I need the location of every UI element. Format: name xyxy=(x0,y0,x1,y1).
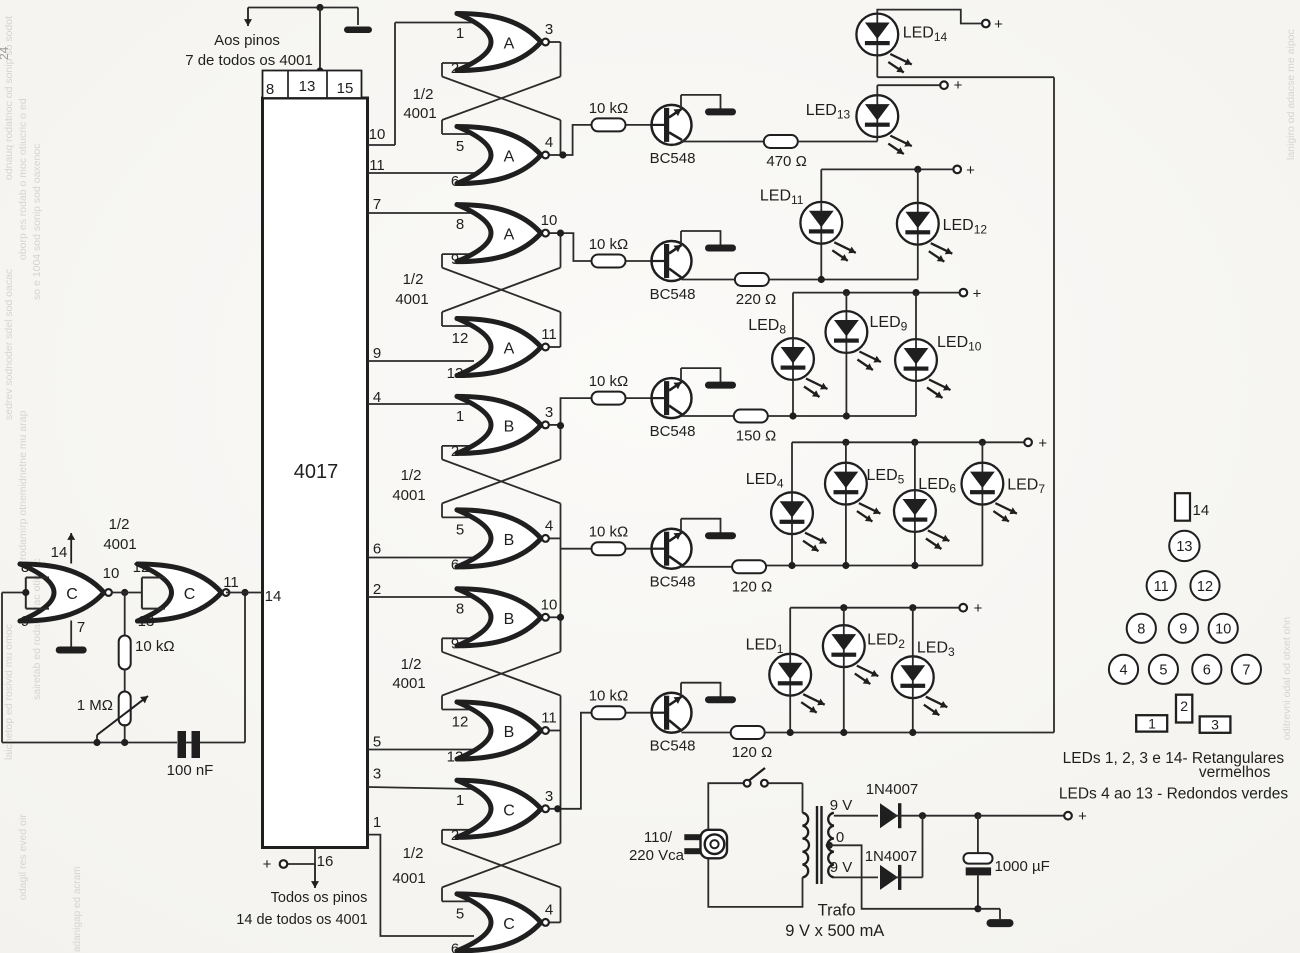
svg-text:4001: 4001 xyxy=(392,870,425,887)
svg-text:7: 7 xyxy=(373,196,381,213)
svg-text:14 de todos os 4001: 14 de todos os 4001 xyxy=(236,912,367,928)
svg-text:6: 6 xyxy=(451,940,459,953)
svg-text:100 nF: 100 nF xyxy=(167,762,214,779)
svg-text:4: 4 xyxy=(1119,663,1127,679)
svg-text:BC548: BC548 xyxy=(650,738,696,755)
svg-text:8: 8 xyxy=(1137,622,1145,638)
svg-text:+: + xyxy=(994,16,1003,33)
svg-text:5: 5 xyxy=(456,138,464,155)
svg-text:3: 3 xyxy=(1211,717,1219,733)
svg-text:B: B xyxy=(504,418,515,435)
svg-text:10 kΩ: 10 kΩ xyxy=(589,100,629,117)
svg-text:13: 13 xyxy=(138,613,155,630)
svg-text:8: 8 xyxy=(456,216,464,233)
svg-text:4017: 4017 xyxy=(294,461,339,483)
svg-text:13: 13 xyxy=(447,749,464,766)
svg-text:1: 1 xyxy=(373,814,381,831)
svg-text:120 Ω: 120 Ω xyxy=(732,744,772,761)
svg-text:8: 8 xyxy=(21,559,29,576)
svg-text:10 kΩ: 10 kΩ xyxy=(589,236,629,253)
svg-text:4001: 4001 xyxy=(395,291,428,308)
svg-text:4: 4 xyxy=(545,901,553,918)
svg-text:12: 12 xyxy=(133,559,150,576)
svg-text:9: 9 xyxy=(21,613,29,630)
svg-text:A: A xyxy=(504,227,515,244)
svg-text:0: 0 xyxy=(836,829,844,846)
svg-text:10 kΩ: 10 kΩ xyxy=(589,688,629,705)
svg-text:220 Ω: 220 Ω xyxy=(736,291,776,308)
svg-text:4: 4 xyxy=(373,389,381,406)
svg-text:4: 4 xyxy=(545,517,553,534)
svg-text:13: 13 xyxy=(447,365,464,382)
svg-text:1/2: 1/2 xyxy=(401,467,422,484)
svg-text:B: B xyxy=(504,724,515,741)
svg-text:3: 3 xyxy=(373,766,381,783)
svg-text:+: + xyxy=(263,856,272,873)
svg-text:10 kΩ: 10 kΩ xyxy=(589,373,629,390)
svg-text:C: C xyxy=(184,586,196,603)
svg-text:4: 4 xyxy=(545,134,553,151)
svg-text:11: 11 xyxy=(223,574,239,591)
svg-text:A: A xyxy=(504,341,515,358)
svg-text:14: 14 xyxy=(265,588,282,605)
svg-text:5: 5 xyxy=(456,521,464,538)
svg-text:sairetab ed rodagerrac otiucri: sairetab ed rodagerrac otiucric xyxy=(31,558,43,700)
svg-text:7 de todos os 4001: 7 de todos os 4001 xyxy=(185,52,313,69)
svg-text:110/: 110/ xyxy=(644,829,673,846)
svg-text:+: + xyxy=(974,600,983,617)
svg-text:10 kΩ: 10 kΩ xyxy=(135,638,175,655)
svg-text:11: 11 xyxy=(1154,579,1169,595)
svg-text:470 Ω: 470 Ω xyxy=(766,153,806,170)
svg-text:A: A xyxy=(504,36,515,53)
svg-text:LEDs 4 ao 13 - Redondos verdes: LEDs 4 ao 13 - Redondos verdes xyxy=(1059,786,1288,803)
svg-text:3: 3 xyxy=(545,788,553,805)
svg-text:6: 6 xyxy=(451,173,459,190)
svg-text:BC548: BC548 xyxy=(650,286,696,303)
svg-text:12: 12 xyxy=(452,714,469,731)
svg-text:9: 9 xyxy=(373,345,381,362)
svg-text:4001: 4001 xyxy=(392,675,425,692)
svg-text:14: 14 xyxy=(1193,502,1210,519)
svg-text:10: 10 xyxy=(541,212,558,229)
svg-text:+: + xyxy=(966,162,975,179)
svg-text:oditrevni odal od otxet ohn: oditrevni odal od otxet ohn xyxy=(1281,617,1293,740)
svg-text:11: 11 xyxy=(369,157,385,174)
svg-text:150 Ω: 150 Ω xyxy=(736,428,776,445)
svg-text:11: 11 xyxy=(541,326,557,343)
svg-text:10: 10 xyxy=(541,596,558,613)
svg-text:12: 12 xyxy=(1197,579,1213,595)
svg-text:+: + xyxy=(1038,435,1047,452)
svg-text:13: 13 xyxy=(1176,539,1192,555)
svg-text:4001: 4001 xyxy=(103,536,136,553)
svg-text:11: 11 xyxy=(541,710,557,727)
svg-text:+: + xyxy=(1078,808,1087,825)
svg-text:1: 1 xyxy=(456,792,464,809)
svg-text:vermelhos: vermelhos xyxy=(1199,764,1271,781)
svg-text:2: 2 xyxy=(451,827,459,844)
svg-text:odnauq rodatnoc od sonip so so: odnauq rodatnoc od sonip so sodot xyxy=(3,16,15,180)
svg-text:9: 9 xyxy=(1179,622,1187,638)
svg-text:B: B xyxy=(504,532,515,549)
svg-text:7: 7 xyxy=(77,619,85,636)
svg-text:1: 1 xyxy=(456,408,464,425)
svg-text:1000 µF: 1000 µF xyxy=(995,858,1050,875)
svg-text:9: 9 xyxy=(451,251,459,268)
svg-text:8: 8 xyxy=(266,81,274,98)
svg-text:9 V: 9 V xyxy=(830,797,853,814)
svg-text:9 V x 500 mA: 9 V x 500 mA xyxy=(785,922,884,940)
svg-text:rodamirp otnemidnetne mu arap: rodamirp otnemidnetne mu arap xyxy=(17,410,29,560)
svg-text:1: 1 xyxy=(1148,716,1156,732)
svg-text:BC548: BC548 xyxy=(650,423,696,440)
svg-text:24: 24 xyxy=(0,46,11,60)
svg-text:10 kΩ: 10 kΩ xyxy=(589,524,629,541)
svg-text:+: + xyxy=(973,286,982,303)
svg-text:1/2: 1/2 xyxy=(401,656,422,673)
svg-text:2: 2 xyxy=(451,60,459,77)
svg-text:lanigiro od adacse me aipoc: lanigiro od adacse me aipoc xyxy=(1285,29,1297,160)
svg-text:B: B xyxy=(504,611,515,628)
svg-text:16: 16 xyxy=(317,853,334,870)
svg-text:5: 5 xyxy=(1159,663,1167,679)
svg-text:14: 14 xyxy=(51,544,68,561)
svg-text:6: 6 xyxy=(451,556,459,573)
svg-text:9: 9 xyxy=(451,635,459,652)
svg-text:1N4007: 1N4007 xyxy=(866,781,919,798)
svg-text:4001: 4001 xyxy=(392,487,425,504)
svg-text:5: 5 xyxy=(373,734,381,751)
svg-text:6: 6 xyxy=(1203,663,1211,679)
svg-text:3: 3 xyxy=(545,404,553,421)
svg-text:1: 1 xyxy=(456,25,464,42)
svg-text:Todos os pinos: Todos os pinos xyxy=(271,890,368,906)
svg-text:8: 8 xyxy=(456,600,464,617)
svg-text:A: A xyxy=(504,149,515,166)
svg-text:laicnetop ed rosivid mu omoc: laicnetop ed rosivid mu omoc xyxy=(3,624,15,760)
svg-text:10: 10 xyxy=(103,565,120,582)
svg-text:10: 10 xyxy=(369,126,386,143)
svg-text:120 Ω: 120 Ω xyxy=(732,578,772,595)
svg-text:sedrev sodnoder sdel sod oacac: sedrev sodnoder sdel sod oacac xyxy=(3,269,15,420)
svg-text:5: 5 xyxy=(456,905,464,922)
svg-text:C: C xyxy=(66,586,78,603)
svg-text:12: 12 xyxy=(452,330,469,347)
svg-text:adanigap ed acram: adanigap ed acram xyxy=(72,866,83,952)
svg-text:so e 1004 sod sonip sod oaxeno: so e 1004 sod sonip sod oaxenoc xyxy=(31,144,43,300)
svg-text:odagil res eved oir: odagil res eved oir xyxy=(17,814,29,900)
svg-text:220 Vca: 220 Vca xyxy=(629,847,685,864)
svg-text:1/2: 1/2 xyxy=(403,271,424,288)
svg-text:+: + xyxy=(954,77,963,94)
svg-text:4001: 4001 xyxy=(403,105,436,122)
svg-text:13: 13 xyxy=(299,78,316,95)
svg-text:3: 3 xyxy=(545,21,553,38)
svg-text:1/2: 1/2 xyxy=(403,845,424,862)
svg-text:2: 2 xyxy=(373,581,381,598)
svg-text:C: C xyxy=(503,916,515,933)
svg-text:15: 15 xyxy=(337,80,354,97)
svg-text:Trafo: Trafo xyxy=(818,902,856,920)
svg-text:1/2: 1/2 xyxy=(413,86,434,103)
svg-text:6: 6 xyxy=(373,541,381,558)
svg-text:1/2: 1/2 xyxy=(109,516,130,533)
svg-text:2: 2 xyxy=(451,443,459,460)
svg-text:C: C xyxy=(503,802,515,819)
svg-text:Aos pinos: Aos pinos xyxy=(214,32,280,49)
svg-text:BC548: BC548 xyxy=(650,574,696,591)
svg-text:oborp es rodab o moc otiucric: oborp es rodab o moc otiucric o ed xyxy=(17,98,29,260)
svg-text:10: 10 xyxy=(1215,622,1231,638)
svg-text:1 MΩ: 1 MΩ xyxy=(77,697,113,714)
svg-text:9 V: 9 V xyxy=(830,859,853,876)
svg-text:BC548: BC548 xyxy=(650,150,696,167)
svg-text:7: 7 xyxy=(1242,663,1250,679)
svg-text:1N4007: 1N4007 xyxy=(865,848,918,865)
svg-text:2: 2 xyxy=(1180,698,1188,714)
